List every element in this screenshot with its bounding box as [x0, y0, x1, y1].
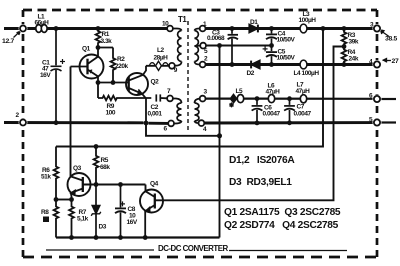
svg-text:Q3: Q3	[73, 165, 82, 172]
svg-text:Q2 2SD774 Q4 2SC2785: Q2 2SD774 Q4 2SC2785	[224, 220, 339, 231]
svg-text:L2: L2	[157, 47, 165, 54]
svg-text:0.0068: 0.0068	[207, 35, 225, 42]
svg-text:100µH: 100µH	[299, 17, 317, 24]
svg-text:DC-DC CONVERTER: DC-DC CONVERTER	[158, 244, 228, 253]
svg-text:47µH: 47µH	[296, 88, 311, 95]
svg-text:27: 27	[392, 58, 399, 65]
svg-text:D1,2 IS2076A: D1,2 IS2076A	[229, 155, 295, 166]
svg-text:Q2: Q2	[151, 79, 160, 86]
svg-text:R2: R2	[117, 56, 125, 63]
svg-text:D2: D2	[247, 70, 255, 77]
svg-text:5,1k: 5,1k	[77, 216, 89, 223]
svg-text:3.3k: 3.3k	[101, 38, 113, 45]
svg-text:66µH: 66µH	[35, 20, 50, 27]
svg-text:D1: D1	[250, 19, 258, 26]
svg-text:220k: 220k	[115, 63, 128, 70]
svg-text:0,001: 0,001	[148, 111, 163, 118]
svg-text:T1: T1	[178, 15, 187, 24]
svg-text:0.0047: 0.0047	[294, 111, 312, 118]
svg-text:Q1 2SA1175 Q3 2SC2785: Q1 2SA1175 Q3 2SC2785	[224, 207, 341, 218]
svg-text:24k: 24k	[349, 56, 359, 63]
svg-text:51k: 51k	[41, 174, 51, 181]
svg-text:R5: R5	[101, 157, 109, 164]
svg-text:10/50V: 10/50V	[277, 54, 296, 61]
svg-text:0.0047: 0.0047	[263, 111, 281, 118]
svg-text:47µH: 47µH	[266, 89, 281, 96]
svg-text:10/50V: 10/50V	[277, 37, 296, 44]
svg-text:R8: R8	[41, 209, 49, 216]
svg-text:L5: L5	[236, 88, 244, 95]
svg-text:16V: 16V	[40, 72, 51, 79]
svg-text:16V: 16V	[127, 219, 138, 226]
svg-text:39k: 39k	[349, 39, 359, 46]
svg-text:Q4: Q4	[150, 181, 159, 188]
svg-text:28µH: 28µH	[154, 55, 169, 62]
svg-text:D3 RD3,9EL1: D3 RD3,9EL1	[229, 177, 292, 188]
svg-text:100: 100	[106, 110, 116, 117]
svg-text:R1: R1	[102, 31, 110, 38]
svg-text:38.5: 38.5	[385, 36, 398, 43]
svg-text:C7: C7	[297, 104, 305, 111]
svg-text:Q1: Q1	[82, 46, 91, 53]
svg-text:12.7: 12.7	[2, 38, 15, 45]
svg-text:D3: D3	[99, 224, 107, 231]
svg-text:L4 100µH: L4 100µH	[294, 70, 320, 77]
svg-text:68k: 68k	[100, 164, 110, 171]
